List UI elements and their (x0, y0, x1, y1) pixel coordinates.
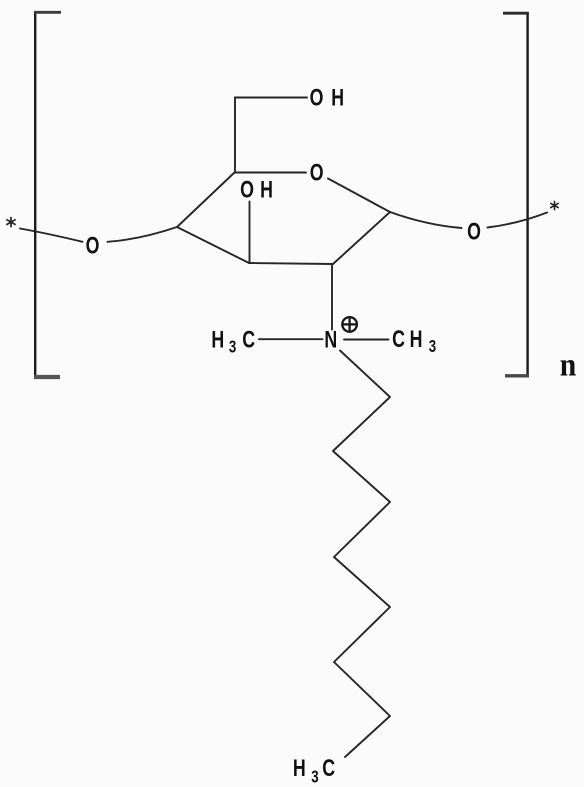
ring bond C4-C5 (177, 172, 235, 227)
ring bond C2-C3 (249, 263, 333, 264)
bond H3C-N (259, 338, 323, 340)
svg-text:O: O (310, 85, 324, 111)
ring bond O-C1 (328, 179, 390, 213)
bond O(left)-C4 (108, 227, 178, 242)
svg-text:H: H (260, 177, 273, 203)
svg-text:O: O (240, 177, 254, 203)
left bracket top tick (34, 11, 61, 14)
asterisk right end-group (551, 201, 558, 209)
svg-text:H: H (293, 756, 306, 782)
asterisk left end-group (7, 218, 15, 227)
svg-text:N: N (324, 327, 337, 353)
right bracket bottom tick (505, 374, 529, 377)
left polymer bracket vertical (34, 11, 36, 379)
bond *(left)-O glycosidic (20, 229, 83, 242)
bond C6-OH (235, 97, 307, 99)
svg-text:3: 3 (229, 338, 237, 357)
svg-text:C: C (392, 326, 405, 352)
right bracket top tick (503, 12, 529, 15)
bond C1-O right glycosidic (390, 212, 462, 228)
svg-text:O: O (467, 219, 481, 245)
bond O(right)-*(right) (488, 213, 548, 228)
svg-text:3: 3 (429, 337, 437, 356)
svg-text:C: C (322, 756, 335, 782)
svg-text:H: H (331, 85, 344, 111)
bond N-CH3 (344, 339, 389, 341)
ring bond C5-O top edge (235, 172, 306, 174)
bond C5-C6 exocyclic (234, 98, 236, 173)
svg-text:O: O (310, 160, 324, 186)
svg-text:3: 3 (311, 768, 319, 787)
left bracket bottom tick (34, 375, 60, 379)
svg-text:O: O (86, 233, 100, 259)
svg-text:H: H (211, 327, 224, 353)
ring bond C1-C2 (333, 212, 390, 264)
svg-text:H: H (410, 326, 423, 352)
ring bond C3-C4 (177, 227, 249, 263)
svg-text:n: n (560, 346, 577, 383)
alkyl chain zigzag N-C8 (333, 351, 390, 758)
bond C2-N (331, 264, 333, 330)
right polymer bracket vertical (526, 12, 528, 377)
plus charge circle (342, 317, 357, 332)
svg-text:C: C (242, 327, 255, 353)
bond OH-C3 (249, 202, 251, 264)
